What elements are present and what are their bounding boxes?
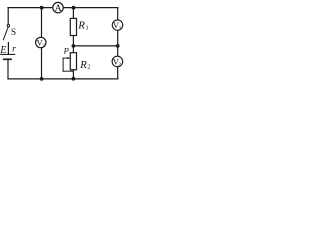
wire R1 to R2 xyxy=(72,36,74,53)
wire V3 branch lower xyxy=(41,48,43,79)
label R1 xyxy=(77,20,88,32)
node junction top (V3 branch) xyxy=(40,6,44,10)
voltmeter V2 xyxy=(112,56,123,68)
node junction bottom (R2 branch) xyxy=(72,77,76,81)
node junction mid (between R1 and R2) xyxy=(72,44,76,48)
svg-text:3: 3 xyxy=(42,43,45,49)
wire right rail upper xyxy=(117,8,119,20)
svg-text:1: 1 xyxy=(119,25,122,31)
battery E r xyxy=(1,54,15,59)
label P (wiper) xyxy=(63,46,70,56)
wire middle bus xyxy=(73,45,117,47)
wiper arm of R2 xyxy=(63,57,73,71)
svg-text:E: E xyxy=(0,45,6,56)
wire bottom bus xyxy=(8,78,118,80)
wire left rail lower (battery to bottom bus) xyxy=(7,59,9,79)
svg-text:A: A xyxy=(55,3,62,14)
wire top bus xyxy=(8,7,118,9)
svg-text:P: P xyxy=(63,46,70,56)
svg-text:R: R xyxy=(79,59,87,71)
wire right rail lower xyxy=(117,67,119,79)
resistor R2 (rheostat body) xyxy=(70,53,76,70)
wire R1 top lead xyxy=(72,8,74,19)
svg-text:2: 2 xyxy=(118,62,121,68)
node junction top (R1 branch) xyxy=(72,6,76,10)
svg-text:S: S xyxy=(11,28,16,38)
node junction right (middle bus) xyxy=(116,44,120,48)
ammeter A xyxy=(53,2,63,14)
voltmeter V3 xyxy=(36,37,46,49)
wire R2 bottom lead xyxy=(72,70,74,79)
switch S xyxy=(3,25,9,40)
wire right rail mid xyxy=(117,30,119,56)
label r xyxy=(12,44,16,55)
svg-text:R: R xyxy=(77,20,85,32)
label S xyxy=(11,28,16,38)
node junction bottom (V3 branch) xyxy=(40,77,44,81)
wire left rail mid (switch to battery) xyxy=(7,43,9,55)
label R2 xyxy=(79,59,91,71)
svg-text:2: 2 xyxy=(87,64,90,71)
wire V3 branch upper xyxy=(41,8,43,38)
resistor R1 xyxy=(70,18,76,35)
svg-text:r: r xyxy=(12,44,16,55)
svg-text:1: 1 xyxy=(86,24,89,31)
label E xyxy=(0,45,6,56)
voltmeter V1 xyxy=(112,20,122,31)
wire left rail upper (to switch) xyxy=(7,8,9,25)
